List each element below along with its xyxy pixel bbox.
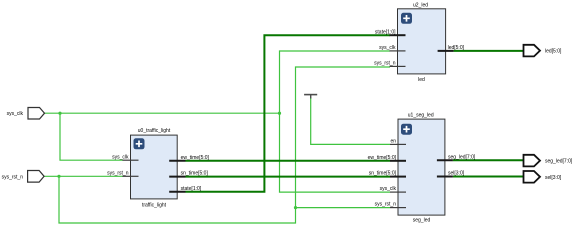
svg-text:ew_time[5:0]: ew_time[5:0]	[368, 155, 397, 161]
block u2_led body	[398, 9, 446, 74]
bus sn_time[5:0]	[186, 176, 391, 178]
pin sn_time[5:0] of seg_led	[369, 171, 406, 177]
pin sys_clk of u2_led	[379, 45, 405, 51]
block u2_led type label	[418, 77, 425, 83]
svg-text:sys_clk: sys_clk	[379, 45, 396, 51]
wire en from tie-off to seg_led	[311, 98, 390, 145]
svg-text:u0_traffic_light: u0_traffic_light	[138, 128, 171, 134]
svg-text:en: en	[390, 139, 396, 145]
svg-text:seg_led[7:0]: seg_led[7:0]	[448, 154, 476, 160]
bus sel[3:0] to output port	[453, 176, 523, 178]
pin led[5:0] of u2_led	[438, 45, 465, 51]
input port sys_clk	[7, 108, 45, 120]
svg-text:led[5:0]: led[5:0]	[545, 49, 562, 55]
svg-text:u1_seg_led: u1_seg_led	[408, 113, 434, 119]
pin ew_time[5:0] of seg_led	[368, 155, 406, 161]
pin state[1:0] of u2_led	[375, 29, 406, 35]
wire sys_rst_n from port to traffic_light	[45, 175, 124, 177]
svg-text:sys_clk: sys_clk	[380, 186, 397, 192]
svg-text:sys_clk: sys_clk	[7, 111, 24, 117]
block u1_seg_led title	[408, 113, 434, 119]
block u0_traffic_light type label	[142, 202, 167, 208]
pin sys_rst_n of traffic_light	[107, 170, 138, 176]
pin sys_rst_n of u2_led	[374, 61, 405, 67]
block u1_seg_led plus icon	[401, 124, 412, 135]
pin state[1:0] of traffic_light	[169, 186, 202, 192]
svg-text:led[5:0]: led[5:0]	[448, 45, 465, 51]
block u2_led plus icon	[401, 13, 412, 24]
wire sys_clk up to u2_led	[280, 51, 391, 113]
wire sys_rst_n bottom route	[59, 176, 296, 223]
svg-text:sys_rst_n: sys_rst_n	[374, 61, 396, 67]
junction sys_rst_n mid	[294, 206, 297, 209]
pin sys_clk of seg_led	[380, 186, 406, 192]
block u2_led title	[413, 2, 428, 8]
svg-text:sys_rst_n: sys_rst_n	[107, 170, 129, 176]
output port sel[3:0]	[524, 171, 562, 183]
block u0_traffic_light title	[138, 128, 171, 134]
pin sel[3:0] of seg_led	[437, 171, 465, 177]
block u1_seg_led body	[398, 119, 445, 215]
wire sys_rst_n to seg_led	[296, 207, 391, 209]
bus state[1:0]	[186, 35, 391, 192]
svg-text:led: led	[418, 77, 425, 83]
block u0_traffic_light plus icon	[134, 138, 145, 149]
svg-text:seg_led: seg_led	[413, 217, 431, 223]
svg-text:sn_time[5:0]: sn_time[5:0]	[369, 171, 397, 177]
svg-text:u2_led: u2_led	[413, 2, 428, 8]
junction at sys_clk port branch	[58, 112, 61, 115]
pin en of seg_led	[390, 139, 406, 145]
wire sys_rst_n vertical up to u2_led	[296, 67, 391, 208]
svg-text:sys_rst_n: sys_rst_n	[2, 174, 24, 180]
svg-text:seg_led[7:0]: seg_led[7:0]	[545, 159, 573, 165]
svg-text:ew_time[5:0]: ew_time[5:0]	[181, 155, 210, 161]
junction at sys_rst_n port branch	[57, 175, 60, 178]
pin sys_clk of traffic_light	[112, 154, 138, 160]
output port seg_led[7:0]	[524, 155, 573, 167]
svg-text:sys_clk: sys_clk	[112, 154, 129, 160]
wire sys_clk horizontal from port to junction	[45, 112, 281, 114]
svg-text:sn_time[5:0]: sn_time[5:0]	[181, 171, 209, 177]
input port sys_rst_n	[2, 171, 45, 183]
pin sys_rst_n of seg_led	[375, 202, 406, 208]
svg-text:sys_rst_n: sys_rst_n	[375, 202, 397, 208]
bus ew_time[5:0]	[186, 160, 391, 162]
block u1_seg_led type label	[413, 217, 431, 223]
output port led[5:0]	[524, 45, 563, 57]
svg-text:sel[3:0]: sel[3:0]	[448, 171, 465, 177]
wire sys_clk down to seg_led	[280, 113, 391, 192]
pin ew_time[5:0] of traffic_light	[169, 155, 209, 161]
svg-text:state[1:0]: state[1:0]	[181, 186, 202, 192]
svg-text:traffic_light: traffic_light	[142, 202, 167, 208]
tie-off T symbol for en	[304, 95, 317, 99]
svg-text:sel[3:0]: sel[3:0]	[545, 175, 562, 181]
pin seg_led[7:0] of seg_led	[437, 154, 476, 160]
svg-text:state[1:0]: state[1:0]	[375, 29, 396, 35]
wire sys_clk branch down to traffic_light	[60, 113, 123, 160]
junction sys_clk mid	[278, 112, 281, 115]
bus seg_led[7:0] to output port	[453, 159, 523, 161]
pin sn_time[5:0] of traffic_light	[169, 171, 208, 177]
bus led[5:0] to output port	[454, 50, 523, 52]
block u0_traffic_light body	[131, 135, 178, 199]
